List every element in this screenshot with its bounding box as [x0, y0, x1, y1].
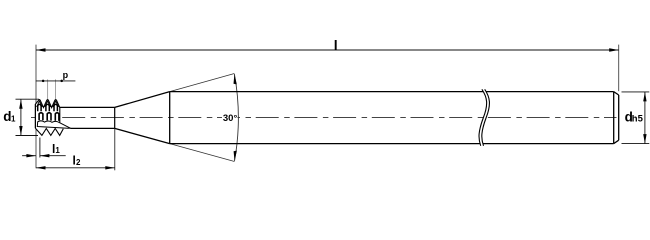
- tool body: shank: [170, 92, 614, 144]
- cutter tip: tooth inner arches: [38, 104, 58, 111]
- label 30deg (with mask over centerline): [222, 112, 238, 123]
- svg-text:2: 2: [76, 158, 81, 167]
- dimension p: [36, 79, 76, 99]
- cutter tip: flute wedge: [37, 121, 70, 128]
- 30 degree arc: [234, 74, 238, 161]
- extension line left (for l, l1, l2): [35, 45, 37, 169]
- tool body: cone: [115, 92, 170, 144]
- arc arrowheads: [234, 74, 237, 84]
- extension line right (for l): [618, 45, 620, 92]
- svg-text:p: p: [63, 70, 69, 80]
- dimension l: [36, 48, 619, 51]
- cutter tip: left edge: [34, 104, 36, 128]
- shank break symbol: [479, 89, 489, 146]
- svg-text:30°: 30°: [223, 113, 238, 124]
- dimension l2: [36, 129, 115, 170]
- neck-cone junction line: [114, 107, 116, 128]
- svg-text:l: l: [334, 37, 338, 53]
- cutter tip: white silhouette mask: [35, 99, 70, 135]
- dimension d1: [16, 99, 40, 135]
- cutter tip: lower arch row: [39, 113, 59, 121]
- 30 degree construction lines: [170, 74, 235, 162]
- shank end chamfer: [614, 92, 619, 144]
- centerline: [31, 117, 617, 119]
- svg-text:h5: h5: [632, 114, 644, 125]
- tool body: neck: [60, 107, 115, 128]
- cutter tip: bottom zigzag teeth: [35, 128, 63, 135]
- svg-text:1: 1: [55, 146, 60, 155]
- cutter tip: tooth inner profile lines: [37, 101, 59, 107]
- dimension l1: [22, 138, 66, 158]
- dimension dh5: [622, 92, 650, 144]
- svg-text:1: 1: [11, 115, 16, 124]
- cutter tip: outer teeth profile: [35, 100, 59, 129]
